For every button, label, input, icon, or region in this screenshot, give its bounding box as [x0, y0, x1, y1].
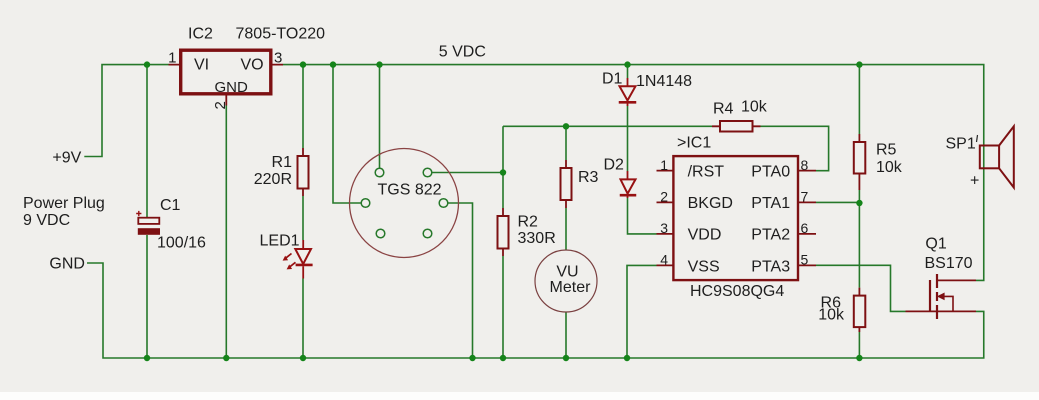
- svg-text:Power Plug: Power Plug: [23, 195, 105, 212]
- svg-text:VDD: VDD: [688, 227, 722, 244]
- svg-text:100/16: 100/16: [157, 234, 206, 251]
- svg-text:10k: 10k: [876, 159, 903, 176]
- svg-text:+9V: +9V: [52, 149, 81, 166]
- svg-text:1: 1: [168, 50, 176, 67]
- svg-text:VU: VU: [556, 264, 578, 281]
- svg-text:C1: C1: [160, 197, 181, 214]
- svg-text:5 VDC: 5 VDC: [439, 43, 486, 60]
- svg-text:4: 4: [660, 252, 668, 268]
- svg-text:D2: D2: [604, 157, 625, 174]
- svg-text:7805-TO220: 7805-TO220: [236, 25, 326, 42]
- svg-text:R5: R5: [876, 142, 897, 159]
- svg-text:8: 8: [801, 157, 809, 173]
- svg-text:10k: 10k: [741, 99, 768, 116]
- svg-text:1N4148: 1N4148: [636, 73, 692, 90]
- svg-text:2: 2: [212, 101, 229, 109]
- svg-text:Meter: Meter: [550, 279, 592, 296]
- svg-text:PTA2: PTA2: [751, 227, 790, 244]
- svg-text:7: 7: [801, 189, 809, 205]
- svg-text:R2: R2: [518, 214, 539, 231]
- svg-text:LED1: LED1: [260, 232, 300, 249]
- svg-text:R4: R4: [713, 101, 734, 118]
- svg-text:Q1: Q1: [925, 236, 946, 253]
- svg-text:GND: GND: [49, 256, 85, 273]
- svg-text:+: +: [970, 173, 979, 190]
- svg-text:220R: 220R: [254, 171, 292, 188]
- svg-text:VSS: VSS: [688, 258, 720, 275]
- svg-text:BKGD: BKGD: [688, 195, 733, 212]
- svg-text:10k: 10k: [818, 307, 845, 324]
- svg-text:3: 3: [660, 220, 668, 236]
- svg-text:PTA3: PTA3: [751, 258, 790, 275]
- svg-text:5: 5: [801, 252, 809, 268]
- svg-text:1: 1: [660, 157, 668, 173]
- svg-text:PTA0: PTA0: [751, 163, 790, 180]
- svg-text:9 VDC: 9 VDC: [23, 212, 70, 229]
- svg-text:TGS 822: TGS 822: [378, 182, 442, 199]
- svg-text:VO: VO: [241, 56, 264, 73]
- svg-text:BS170: BS170: [925, 255, 973, 272]
- svg-text:3: 3: [274, 50, 282, 67]
- svg-text:D1: D1: [602, 71, 623, 88]
- svg-text:VI: VI: [194, 56, 209, 73]
- svg-text:IC2: IC2: [188, 25, 213, 42]
- svg-text:GND: GND: [215, 79, 249, 96]
- svg-text:R3: R3: [578, 169, 599, 186]
- svg-text:6: 6: [801, 220, 809, 236]
- svg-text:SP1: SP1: [946, 136, 976, 153]
- svg-text:R1: R1: [272, 154, 293, 171]
- svg-text:>IC1: >IC1: [677, 135, 711, 152]
- svg-text:PTA1: PTA1: [751, 195, 790, 212]
- svg-text:330R: 330R: [518, 230, 556, 247]
- svg-text:HC9S08QG4: HC9S08QG4: [690, 283, 784, 300]
- svg-text:/RST: /RST: [688, 163, 725, 180]
- svg-text:2: 2: [660, 189, 668, 205]
